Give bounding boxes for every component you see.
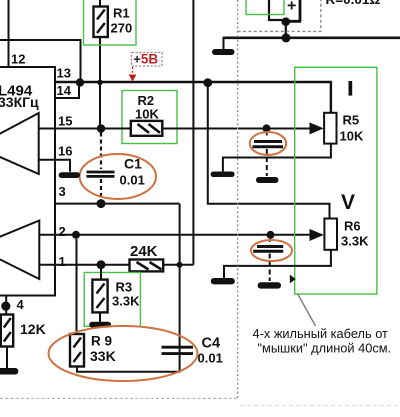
capacitor C6 plates xyxy=(257,245,283,248)
wire pin3 down to C4 xyxy=(179,204,181,372)
stub to sense line xyxy=(285,22,287,38)
node pin2/R9 junction xyxy=(72,231,80,239)
svg-text:4: 4 xyxy=(17,297,25,312)
+5B dashed leader and arrow xyxy=(132,67,134,74)
wire pin 2 to R6 wiper xyxy=(39,234,310,236)
wire pin 3 xyxy=(55,203,180,205)
wire pin 4 stub xyxy=(5,296,7,315)
resistor R1 wires xyxy=(99,0,101,129)
wire riser to top (current sense) xyxy=(192,0,194,265)
green box around R2 xyxy=(122,91,177,144)
shunt left leg xyxy=(269,0,282,20)
op-amp A1 (error amp, top triangle) xyxy=(0,113,39,174)
ground bar (R6 return) xyxy=(211,278,235,284)
orange ellipse around R9/C4 xyxy=(49,326,198,381)
svg-text:14: 14 xyxy=(57,83,72,98)
svg-text:12: 12 xyxy=(11,52,25,67)
svg-text:33КГц: 33КГц xyxy=(0,94,39,110)
IC U1 TL494 outline xyxy=(0,67,55,296)
wire 24K right to riser xyxy=(163,264,193,266)
wire pin 16 stub xyxy=(39,160,70,172)
svg-text:270: 270 xyxy=(111,21,133,36)
potentiometer R5 xyxy=(324,113,336,144)
arrowhead to R5 wiper xyxy=(310,122,324,134)
svg-text:0.01: 0.01 xyxy=(120,173,145,188)
wire pin 14 to node xyxy=(55,86,79,98)
wire R6 bottom to ground xyxy=(224,250,331,278)
svg-text:3: 3 xyxy=(59,184,66,199)
svg-text:3.3K: 3.3K xyxy=(341,234,369,249)
node shunt junction xyxy=(282,17,291,26)
svg-text:13: 13 xyxy=(57,66,71,81)
arrowhead to R6 wiper xyxy=(310,229,324,241)
wire R9 bottom to C4 xyxy=(76,367,180,372)
wire pin 15 to R2 xyxy=(39,128,131,130)
svg-text:R6: R6 xyxy=(344,219,361,234)
orange ellipse around C6 xyxy=(251,240,292,261)
node pin3/C1 junction xyxy=(97,199,106,208)
ground bar under R3 xyxy=(89,322,111,328)
shunt right leg xyxy=(284,0,301,21)
resistor R1 xyxy=(94,7,108,38)
orange ellipse around C5 xyxy=(250,132,286,155)
orange ellipse around C1 xyxy=(80,154,156,199)
svg-text:10K: 10K xyxy=(340,129,364,144)
svg-text:15: 15 xyxy=(58,114,72,129)
svg-text:R5: R5 xyxy=(343,113,360,128)
wire pin 1 to 24K xyxy=(39,264,129,266)
wire top-left to +5V node xyxy=(0,40,81,79)
capacitor C1 dashed stub bottom xyxy=(100,179,102,200)
ground bar under 12K xyxy=(0,368,18,375)
green box around R1 xyxy=(84,0,137,45)
node pins 13/14 junction xyxy=(76,78,84,86)
ground bar under C5 xyxy=(256,177,279,183)
resistor R3 xyxy=(92,280,107,313)
pin 12 wire xyxy=(8,0,10,67)
dashed box around shunt xyxy=(238,0,321,31)
svg-text:33K: 33K xyxy=(90,348,116,364)
svg-text:16: 16 xyxy=(58,144,72,159)
svg-text:4-х жильный кабель от: 4-х жильный кабель от xyxy=(253,326,389,341)
ground bar top xyxy=(212,49,235,55)
faint dashed line bottom right xyxy=(240,405,400,407)
svg-text:10K: 10K xyxy=(135,107,159,122)
potentiometer R6 xyxy=(324,219,337,250)
svg-text:+5В: +5В xyxy=(134,52,159,67)
svg-text:3.3K: 3.3K xyxy=(112,294,140,309)
resistor R3 wires xyxy=(100,269,101,323)
svg-text:1: 1 xyxy=(59,254,66,269)
svg-text:"мышки" длиной 40см.: "мышки" длиной 40см. xyxy=(258,341,392,356)
resistor 12K xyxy=(1,315,13,347)
capacitor C5 (circled) stub xyxy=(266,133,268,139)
dashed border vertical xyxy=(237,0,239,398)
svg-text:R3: R3 xyxy=(116,280,133,295)
annotation arrowhead xyxy=(290,275,296,284)
svg-text:0.01: 0.01 xyxy=(198,351,223,366)
wire riser rail to R6 top xyxy=(208,86,330,219)
+5B supply label box xyxy=(132,53,163,67)
green box around I/V pots xyxy=(295,67,377,294)
node pin2-wire/C6 junction xyxy=(267,231,275,239)
resistor R9 xyxy=(70,334,84,367)
wire R5 bottom to ground xyxy=(223,144,331,172)
node pin 4 xyxy=(1,302,10,311)
capacitor C1 xyxy=(87,171,115,174)
svg-text:2: 2 xyxy=(59,224,66,239)
svg-text:R=0.01Ω: R=0.01Ω xyxy=(326,0,381,7)
svg-text:24K: 24K xyxy=(130,243,158,260)
green box around shunt xyxy=(246,0,284,15)
pin 16 end bar xyxy=(59,172,80,178)
node wire/C5 junction xyxy=(263,124,271,132)
wire +5V rail (pin 13 across to R5) xyxy=(55,82,331,113)
capacitor C1 dashed stub top xyxy=(100,133,102,170)
annotation leader line xyxy=(298,294,316,327)
ground stub top xyxy=(223,38,225,49)
ground bar (R5 return) xyxy=(211,172,235,178)
op-amp A2 (error amp, bottom triangle) xyxy=(0,221,39,280)
ground bar under C6 xyxy=(258,282,281,288)
wire R2 to R5 wiper xyxy=(162,128,310,130)
capacitor C4 xyxy=(162,346,194,349)
node R1/rail small junction xyxy=(97,80,103,86)
capacitor C6 (circled) stub xyxy=(269,239,271,244)
wire R9 riser from pin2 node xyxy=(76,239,78,334)
svg-text:12K: 12K xyxy=(20,321,46,337)
capacitor C6 lower stub xyxy=(269,254,271,282)
resistor R2 xyxy=(131,121,163,136)
node 24K/C4 riser junction xyxy=(177,262,183,268)
dashed border bottom xyxy=(0,397,238,399)
capacitor C5 lower stub xyxy=(266,149,268,176)
svg-text:R 9: R 9 xyxy=(91,334,112,349)
label I xyxy=(349,81,353,96)
svg-text:+: + xyxy=(287,0,296,15)
wire 12K to ground xyxy=(6,347,8,369)
node rail/R6 riser xyxy=(203,78,212,87)
node pin15/R1/C1 junction xyxy=(97,124,106,133)
svg-text:R1: R1 xyxy=(113,6,130,21)
resistor 24K xyxy=(130,260,164,272)
green box around R3 xyxy=(84,273,140,327)
svg-text:C4: C4 xyxy=(202,336,221,352)
current sense top line xyxy=(223,36,400,39)
node sense line junction xyxy=(282,33,291,42)
svg-text:V: V xyxy=(341,191,355,214)
node pin1/R3 junction xyxy=(97,260,106,269)
capacitor C5 plates xyxy=(254,140,282,143)
